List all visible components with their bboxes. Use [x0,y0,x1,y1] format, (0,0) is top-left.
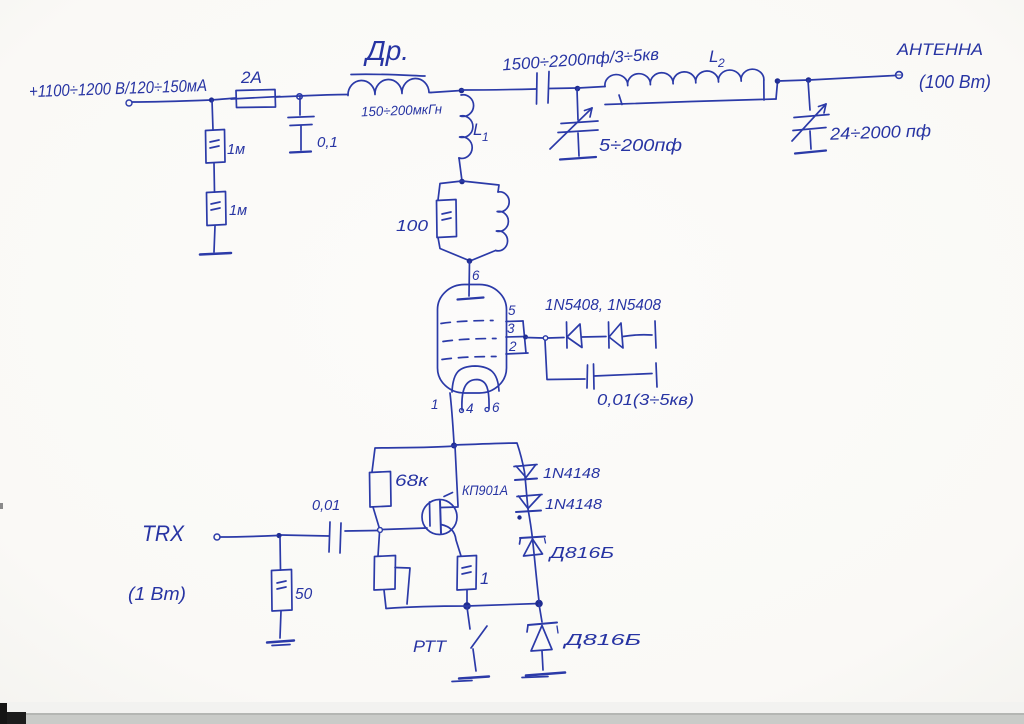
svg-text:TRX: TRX [142,521,185,546]
pin 6 heater terminal [485,408,489,412]
label L1 [473,120,489,144]
label 1N5408 pair [545,297,661,314]
PTT switch [467,607,487,671]
svg-text:1: 1 [431,397,439,412]
label 1500-2200pf/3-5kv [502,45,660,74]
svg-text:0,1: 0,1 [317,134,338,151]
variable capacitor C 5-200pf [550,89,598,160]
node diode branch [543,336,547,340]
label 0,01 3-5kv [597,392,694,409]
label choke value 150-200uH [361,102,443,120]
svg-text:3: 3 [507,321,515,336]
variable capacitor 24-2000pf [792,80,829,154]
wire L2 node to ant-cap node [778,80,808,81]
tank damping coil [496,192,510,251]
label 1 ohm [480,570,489,588]
wire cap to TRX node [281,535,329,536]
transistor Q1 KP901A [422,493,461,557]
capacitor 1500-2200pf [537,72,550,105]
pin 4 heater terminal [460,409,464,413]
label 2A [240,68,262,87]
capacitor 0,01 3-5kv [587,364,652,389]
terminal antenna [896,72,903,79]
wire TRX node down [279,537,282,570]
wire gate node to transistor [383,528,428,530]
tube anode plate [458,298,484,300]
wire drain node to diode chain [454,443,539,601]
wire tune node to L2 [578,87,605,89]
svg-text:150÷200мкГн: 150÷200мкГн [361,102,443,120]
svg-text:24÷2000 пф: 24÷2000 пф [829,121,932,144]
wire bias resistor to rail [384,590,386,608]
svg-text:1N5408, 1N5408: 1N5408, 1N5408 [545,297,661,314]
label 24-2000pf [829,121,932,144]
svg-text:2: 2 [508,339,517,354]
open end bar cap [656,363,657,387]
resistor 100 [437,200,457,238]
svg-text:68к: 68к [395,472,430,490]
L2 tap line [605,82,778,105]
node gate [378,528,383,533]
grid pin stub 2 [506,353,528,354]
svg-text:50: 50 [295,586,313,603]
label D816B lower [562,632,641,649]
label 1N4148 a [543,466,600,482]
label 1M lower [229,203,247,219]
diode VD2 1N5408 [609,322,624,348]
ground PTT [452,677,489,682]
label pin 3 [507,321,515,336]
label 1M upper [227,142,245,158]
tube VL1 envelope [438,285,507,394]
diode VD1 1N5408 [567,322,583,348]
svg-text:1N4148: 1N4148 [543,466,600,482]
node tank bottom [467,258,473,264]
choke Dr winding [348,78,431,95]
svg-text:Др.: Др. [363,35,409,66]
label 68k [395,472,430,490]
gate resistor tap [395,568,410,605]
svg-text:2: 2 [717,56,725,70]
label pin 6 anode [472,268,480,283]
wire fuse to C-node [276,96,300,97]
svg-text:6: 6 [492,400,500,415]
label KP901A [462,483,508,498]
label pin 5 [508,303,516,318]
zener VD6 D816B below rail [527,604,558,670]
label 50 [295,586,313,603]
wire VD1 to VD2 [582,336,606,339]
wire R1 to R2 [213,163,216,192]
svg-text:1N4148: 1N4148 [545,497,602,513]
wire TRX node to terminal [220,536,277,538]
svg-text:АНТЕННА: АНТЕННА [896,41,983,59]
wire C-node to choke [300,95,348,97]
wire gate node to input cap [345,530,378,533]
svg-text:4: 4 [466,401,474,416]
svg-text:РТТ: РТТ [413,638,448,656]
label 5-200pf [599,135,682,155]
capacitor input 0,01 [329,522,341,553]
node C 0,1 junction [297,94,302,99]
wire node to VD1 [548,337,564,340]
svg-text:1: 1 [480,570,489,588]
grid pin stub 5 [506,320,523,323]
label antenna [896,41,983,59]
choke core bar [351,74,425,76]
cathode wire pin1 down [450,393,454,443]
wire choke to L1 node [431,91,461,93]
node grid junction [523,335,528,340]
ground zener [522,673,565,678]
fuse F1 2A [231,90,280,108]
resistor 68k [370,472,392,508]
node zener rail junction [535,600,543,608]
label pin 4 [466,401,474,416]
grid tie wire [523,321,526,353]
svg-text:1: 1 [482,130,489,144]
open end bar diodes [655,321,656,348]
tube grid g3 dashed [441,321,493,324]
node drain junction [451,443,457,449]
resistor R2 1M [207,192,227,226]
wire L1 to tank [459,158,462,181]
diode VD4 1N4148 [516,495,542,513]
tube grid g1 dashed [442,357,496,360]
bottom rail wire [386,604,539,609]
node antenna cap junction [806,77,812,83]
svg-text:(1 Вт): (1 Вт) [128,584,186,604]
wire VD2 to end [623,335,652,337]
wire cap to tune node [549,87,577,90]
node source rail junction [463,602,471,610]
label L2 [709,47,725,70]
ground 50 [267,641,294,646]
wire tank to anode pin 6 [468,261,471,296]
resistor 50 [272,570,293,612]
svg-text:1м: 1м [227,142,245,158]
label pin 2 [508,339,517,354]
svg-text:5÷200пф: 5÷200пф [599,135,682,155]
svg-text:0,01: 0,01 [312,498,340,514]
wire grid to diode node [526,337,543,340]
wire branch down to cap [545,341,585,380]
wire to antenna terminal [809,76,895,81]
tube cathode [452,366,499,392]
label 100W [919,71,991,92]
svg-text:0,01(3÷5кв): 0,01(3÷5кв) [597,392,694,409]
wire R2 to ground [214,226,215,252]
label input 0,01 [312,498,340,514]
node tune junction [575,86,581,92]
label pin 6b [492,400,500,415]
tank bottom wires [438,238,496,262]
svg-text:1м: 1м [229,203,247,219]
ground divider [200,253,231,255]
terminal TRX [214,534,220,540]
tube grid g2 dashed [443,339,496,342]
resistor gate bias [374,556,396,591]
inductor L1 [459,95,474,159]
wire gate node down [378,533,380,557]
label 1N4148 b [545,497,602,513]
node VD4-VD5 [517,515,521,519]
node L2 out [775,78,781,84]
wire 68k to gate node [373,507,379,527]
svg-text:Д816Б: Д816Б [547,545,614,562]
wire drain node to 68k [372,446,454,472]
wire junction to R1 [212,100,213,130]
terminal B+ input [126,100,132,106]
label D816B upper [547,545,614,562]
svg-text:5: 5 [508,303,516,318]
inductor L2 [605,69,764,100]
label B+ supply +1100-1200V [29,76,208,101]
zener VD5 D816B [520,537,546,557]
label 0,1 [317,134,338,151]
wire rail to C coupling [461,89,536,90]
svg-text:КП901А: КП901А [462,483,508,498]
grid pin stub 3 [506,336,526,339]
wire source resistor to rail [466,590,468,603]
capacitor C 0,1 [288,96,314,153]
wire B+ input to fuse [132,98,236,102]
svg-text:(100 Вт): (100 Вт) [919,71,991,92]
label Dr [363,35,409,66]
node B+ junction [209,97,214,102]
tube heater arc [462,380,489,411]
label 100 [396,218,428,235]
label pin 1 [431,397,439,412]
svg-text:6: 6 [472,268,480,283]
svg-text:100: 100 [396,218,428,235]
resistor source 1 [457,556,477,591]
resistor R1 1M [206,130,226,164]
tank top wires [438,181,499,200]
node tank top [459,179,465,185]
wire 50 to ground [280,611,281,638]
node TRX junction [276,533,281,538]
svg-text:2А: 2А [240,68,262,87]
label TRX [142,521,185,546]
svg-text:Д816Б: Д816Б [562,632,641,649]
diode VD3 1N4148 [514,465,537,481]
label PTT [413,638,448,656]
wire drain vertical [455,446,458,506]
node anode rail junction [459,88,465,94]
label 1W [128,584,186,604]
